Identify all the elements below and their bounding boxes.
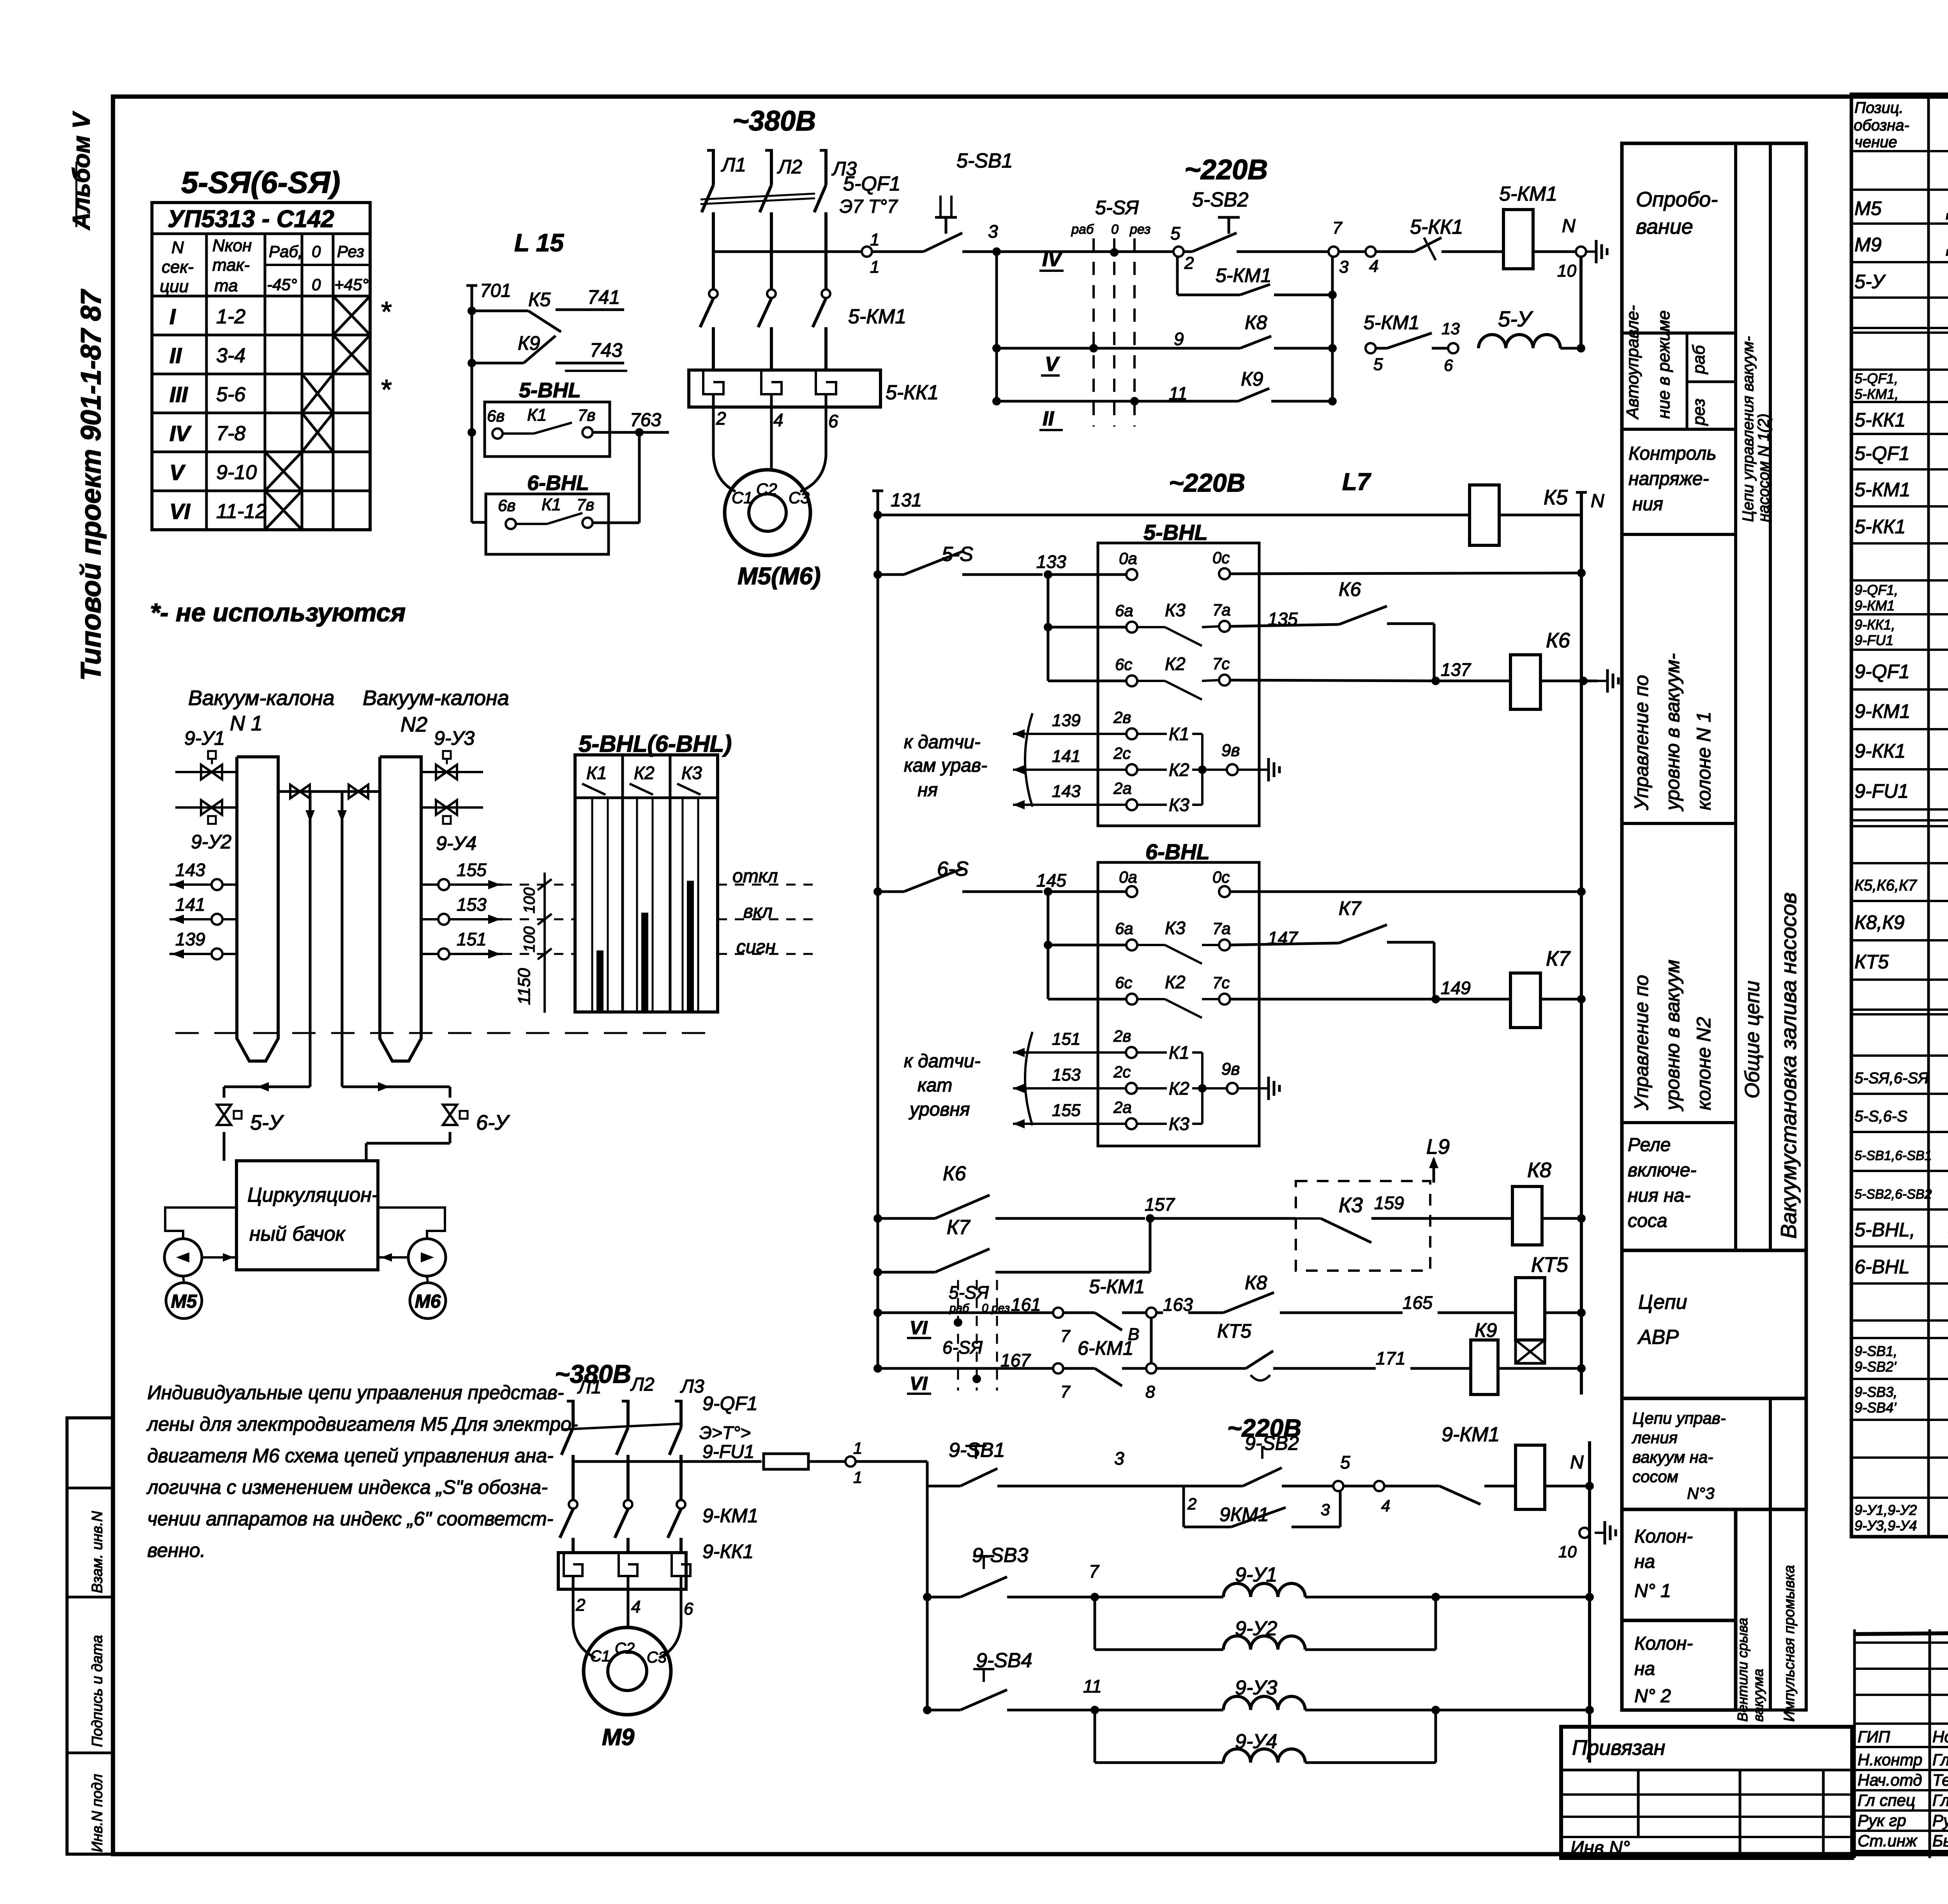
- svg-text:Вакуумустановка залива насосо: Вакуумустановка залива насосов: [1776, 892, 1801, 1239]
- svg-text:вакуум на-: вакуум на-: [1632, 1448, 1713, 1466]
- relay K5 rung (131): [872, 485, 1604, 545]
- svg-text:155: 155: [1052, 1101, 1081, 1120]
- svg-text:на: на: [1634, 1551, 1655, 1572]
- svg-text:К9: К9: [1241, 368, 1263, 390]
- svg-text:М9: М9: [1854, 234, 1881, 256]
- svg-text:5-S,6-S: 5-S,6-S: [1854, 1108, 1907, 1125]
- svg-text:Ст.инж: Ст.инж: [1858, 1832, 1918, 1850]
- svg-text:0с: 0с: [1212, 868, 1230, 886]
- margin label: Альбом V: [68, 111, 95, 231]
- zone: Управление по уровню N1: [1630, 653, 1715, 811]
- svg-text:II: II: [169, 343, 182, 368]
- svg-text:9-FU1: 9-FU1: [1854, 632, 1893, 648]
- svg-text:К8,К9: К8,К9: [1854, 911, 1904, 933]
- svg-text:ня: ня: [918, 780, 938, 800]
- svg-text:АВР: АВР: [1637, 1326, 1679, 1349]
- svg-text:9-SB2': 9-SB2': [1854, 1359, 1897, 1375]
- svg-text:колоне N2: колоне N2: [1693, 1017, 1715, 1110]
- svg-text:9-SB3,: 9-SB3,: [1854, 1384, 1897, 1400]
- svg-text:М9: М9: [602, 1724, 635, 1750]
- svg-text:5-КМ1,: 5-КМ1,: [1854, 386, 1899, 402]
- svg-text:Колон-: Колон-: [1634, 1526, 1693, 1547]
- svg-text:157: 157: [1145, 1194, 1175, 1215]
- svg-text:7: 7: [1089, 1561, 1099, 1581]
- svg-text:V: V: [169, 460, 186, 485]
- svg-text:к датчи-: к датчи-: [904, 732, 981, 753]
- svg-text:N: N: [1591, 491, 1604, 511]
- table row: Тумблер ТВ1-1: [1854, 1102, 1948, 1126]
- pipe to tank via valve 6-У: [342, 1082, 510, 1161]
- signature rows: [1854, 1629, 1948, 1858]
- svg-text:та: та: [214, 276, 238, 295]
- svg-text:лены для электродвигателя М5 Д: лены для электродвигателя М5 Для электро…: [146, 1413, 578, 1435]
- svg-text:1: 1: [853, 1439, 862, 1457]
- svg-text:Опробо-: Опробо-: [1636, 188, 1718, 211]
- wire: N bus (test section): [1579, 257, 1583, 348]
- svg-text:9-У3,9-У4: 9-У3,9-У4: [1854, 1518, 1917, 1534]
- svg-text:6: 6: [1444, 356, 1453, 374]
- svg-text:Быльченко: Быльченко: [1932, 1832, 1948, 1850]
- svg-text:К2: К2: [634, 763, 655, 783]
- svg-text:М5: М5: [171, 1291, 198, 1312]
- svg-text:Привязан: Привязан: [1572, 1736, 1665, 1759]
- svg-text:раб: раб: [1071, 222, 1094, 237]
- level taps 139/141/143: [169, 860, 237, 959]
- svg-text:Nкон: Nкон: [212, 236, 252, 255]
- svg-text:напряже-: напряже-: [1629, 469, 1709, 489]
- svg-text:Управление по: Управление по: [1630, 675, 1652, 811]
- table row: Реле ПЭ37-22УЗ, ~220В, 2з, 2р: [1854, 871, 1948, 895]
- time relay KT5 coil: [1516, 1253, 1586, 1363]
- svg-text:Цепи управ-: Цепи управ-: [1632, 1409, 1726, 1427]
- label ~220V (top): [1184, 154, 1268, 185]
- svg-text:КТ5: КТ5: [1217, 1320, 1251, 1342]
- svg-text:7в: 7в: [578, 406, 595, 424]
- svg-text:2в: 2в: [1113, 1027, 1131, 1045]
- svg-text:ния на-: ния на-: [1628, 1185, 1690, 1206]
- svg-text:ния: ния: [1632, 494, 1663, 515]
- svg-text:1: 1: [853, 1468, 862, 1486]
- svg-text:9-У3: 9-У3: [434, 727, 475, 749]
- svg-text:VI: VI: [910, 1318, 928, 1338]
- svg-text:131: 131: [891, 490, 922, 511]
- level contact 6с-К2-7с: [1048, 654, 1440, 700]
- circulation tank: [236, 1161, 378, 1270]
- svg-text:С2: С2: [615, 1640, 635, 1657]
- svg-text:сек-: сек-: [162, 257, 194, 277]
- zone: Управление по уровню N2: [1630, 960, 1715, 1111]
- thermal contact 5-KK1 (NC): [1410, 216, 1503, 260]
- svg-text:насосом N 1(2): насосом N 1(2): [1755, 414, 1772, 522]
- svg-text:КТ5: КТ5: [1531, 1253, 1569, 1276]
- svg-text:Цепи: Цепи: [1638, 1291, 1687, 1313]
- svg-text:уровня: уровня: [909, 1099, 970, 1120]
- svg-text:9-QF1,: 9-QF1,: [1854, 582, 1898, 598]
- solenoid 9-У1: [1223, 1564, 1594, 1601]
- svg-text:9-КМ1: 9-КМ1: [1442, 1423, 1500, 1446]
- table row: Выключатель АЕ2046М-10РУЗ-6 Эр 16А: [1854, 658, 1948, 683]
- svg-text:К5: К5: [528, 289, 551, 310]
- phase terminals Л1 Л2 Л3: [707, 150, 857, 185]
- svg-text:Автоуправле-: Автоуправле-: [1623, 305, 1642, 420]
- level contact 6а-К3-7а -> K6: [1044, 575, 1434, 681]
- fuse 9-FU1 and control tap: [573, 1439, 927, 1486]
- relay K6 coil 137: [1436, 629, 1618, 709]
- svg-text:N° 1: N° 1: [1634, 1581, 1671, 1601]
- svg-text:ции: ции: [160, 277, 189, 296]
- svg-text:143: 143: [175, 860, 205, 880]
- svg-text:рез: рез: [1129, 222, 1150, 237]
- svg-text:чение: чение: [1854, 134, 1897, 151]
- table row: Пост ПКУ15-21, 141-40УЗ: [1854, 1343, 1948, 1375]
- svg-text:Рук гр: Рук гр: [1858, 1811, 1906, 1830]
- valve 9-У1: [175, 727, 237, 779]
- contactor 5-KM1 main contacts: [700, 289, 906, 370]
- svg-text:155: 155: [457, 860, 487, 880]
- svg-text:откл: откл: [732, 866, 778, 887]
- svg-text:*: *: [380, 374, 392, 405]
- svg-text:9-SB2: 9-SB2: [1245, 1432, 1299, 1454]
- svg-text:К1: К1: [586, 763, 607, 783]
- svg-text:Циркуляцион-: Циркуляцион-: [247, 1184, 378, 1206]
- svg-text:5-ВHL(6-ВHL): 5-ВHL(6-ВHL): [579, 731, 732, 757]
- svg-text:Л2: Л2: [777, 156, 802, 178]
- svg-text:0: 0: [1111, 222, 1119, 237]
- svg-text:N2: N2: [401, 713, 427, 736]
- svg-text:на: на: [1634, 1659, 1655, 1679]
- svg-text:чении аппаратов на индекс „6": чении аппаратов на индекс „6" соответст-: [147, 1508, 553, 1530]
- svg-text:6-ВHL: 6-ВHL: [527, 471, 589, 495]
- svg-text:9-КМ1: 9-КМ1: [1854, 700, 1910, 722]
- svg-text:6с: 6с: [1115, 973, 1132, 992]
- svg-text:6с: 6с: [1115, 655, 1132, 673]
- svg-text:М5(М6): М5(М6): [738, 563, 821, 590]
- svg-text:5-ВHL,: 5-ВHL,: [1854, 1219, 1915, 1241]
- svg-text:9-КМ1: 9-КМ1: [702, 1505, 758, 1527]
- svg-text:К6: К6: [1546, 629, 1570, 652]
- svg-text:ный бачок: ный бачок: [249, 1223, 346, 1245]
- svg-text:5-SB1,6-SB1: 5-SB1,6-SB1: [1854, 1148, 1932, 1163]
- svg-text:141: 141: [175, 894, 205, 915]
- svg-text:9-КМ1: 9-КМ1: [1854, 598, 1895, 614]
- pipe between columns with valves: [278, 785, 380, 1087]
- solenoid 9-У4 branch: [1095, 1710, 1436, 1763]
- svg-text:L7: L7: [1342, 469, 1371, 495]
- svg-text:кам урав-: кам урав-: [904, 755, 987, 776]
- svg-text:5-КМ1: 5-КМ1: [1499, 183, 1557, 205]
- wire: L15 bus 701: [466, 280, 511, 522]
- solenoid 9-У3: [1223, 1677, 1594, 1714]
- svg-text:4: 4: [1369, 257, 1378, 276]
- svg-text:Л2: Л2: [630, 1374, 655, 1395]
- wire: left bus (9-SB): [926, 1486, 929, 1710]
- svg-text:7с: 7с: [1212, 973, 1230, 992]
- pushbutton 9-SB4 rung: [923, 1649, 1223, 1714]
- svg-text:5-КК1: 5-КК1: [1854, 409, 1906, 431]
- svg-text:Глузберг: Глузберг: [1932, 1791, 1948, 1809]
- svg-text:137: 137: [1441, 659, 1471, 680]
- svg-text:2: 2: [716, 408, 726, 428]
- svg-text:Вентили срыва: Вентили срыва: [1734, 1618, 1750, 1722]
- svg-text:1150: 1150: [515, 968, 534, 1005]
- svg-text:Импульсная промывка: Импульсная промывка: [1781, 1565, 1798, 1722]
- table row: Клапан угловой КВМ-25, ~220В: [1854, 1502, 1948, 1534]
- svg-text:5-КК1: 5-КК1: [1410, 216, 1463, 238]
- contact K7 rung: [873, 1216, 1150, 1276]
- svg-text:Рез: Рез: [337, 242, 364, 261]
- svg-text:Э7 Т°7: Э7 Т°7: [840, 196, 898, 217]
- svg-text:*: *: [380, 296, 392, 328]
- svg-text:5-У: 5-У: [250, 1111, 284, 1134]
- zone: Реле включения насоса: [1628, 1135, 1696, 1231]
- svg-text:6а: 6а: [1115, 919, 1133, 938]
- svg-text:Инв N°: Инв N°: [1570, 1838, 1630, 1858]
- svg-text:Реле: Реле: [1628, 1135, 1671, 1155]
- table row: Блок управления: [1854, 582, 1948, 614]
- zone: Общие цепи: [1741, 981, 1764, 1098]
- svg-text:VI: VI: [910, 1373, 928, 1394]
- svg-text:L 15: L 15: [514, 229, 564, 257]
- svg-text:К3: К3: [1169, 795, 1189, 815]
- svg-text:6-У: 6-У: [476, 1111, 510, 1134]
- svg-text:4: 4: [1381, 1497, 1390, 1515]
- svg-text:7: 7: [1060, 1382, 1071, 1402]
- svg-text:К8: К8: [1245, 1272, 1267, 1294]
- table row: кальный, вариант 1,: [1854, 1253, 1948, 1278]
- svg-text:9-У4: 9-У4: [436, 832, 476, 854]
- svg-text:М5: М5: [1854, 197, 1882, 219]
- table row: Двигатель 4А90 L4: [1854, 195, 1948, 220]
- sensor leads 139/141/143 (5-BHL): [904, 708, 1279, 815]
- svg-text:139: 139: [175, 929, 205, 949]
- svg-text:701: 701: [480, 280, 511, 301]
- svg-text:Л1: Л1: [577, 1377, 602, 1398]
- table row: Переключатель УП5313 С142УЗ: [1854, 1063, 1948, 1088]
- svg-text:10: 10: [1558, 1543, 1577, 1561]
- svg-text:9-QF1: 9-QF1: [702, 1393, 758, 1414]
- svg-text:5-ВHL: 5-ВHL: [519, 379, 581, 402]
- svg-text:так-: так-: [212, 256, 250, 275]
- zone: Цепи управления вакуум-насосом N1(2): [1740, 336, 1772, 522]
- svg-text:N: N: [1570, 1452, 1584, 1473]
- svg-text:2а: 2а: [1113, 1098, 1132, 1116]
- note text block: [146, 1382, 578, 1561]
- svg-text:К1: К1: [527, 405, 547, 425]
- svg-text:1: 1: [870, 230, 879, 249]
- svg-text:10: 10: [1557, 261, 1576, 280]
- svg-text:5-SB2: 5-SB2: [1192, 189, 1249, 211]
- components table grid: [1851, 94, 1948, 1537]
- svg-text:1: 1: [870, 257, 879, 277]
- svg-text:Цепи управления вакуум-: Цепи управления вакуум-: [1740, 336, 1757, 522]
- svg-text:167: 167: [1000, 1350, 1031, 1370]
- selector 5-SЯ (dashed): [1071, 197, 1150, 427]
- svg-text:143: 143: [1052, 782, 1081, 801]
- zone: Цепи упр. вакуум насосом N3: [1622, 1398, 1806, 1509]
- svg-text:К3: К3: [1339, 1194, 1363, 1217]
- svg-text:III: III: [169, 382, 188, 407]
- wire: right N bus (M9): [1558, 1441, 1616, 1763]
- svg-text:5-ВHL: 5-ВHL: [1143, 520, 1208, 545]
- margin cells stack: [67, 1418, 113, 1854]
- svg-text:5-SЯ: 5-SЯ: [949, 1282, 989, 1303]
- svg-text:133: 133: [1036, 552, 1066, 572]
- pump M6: [378, 1208, 446, 1319]
- section numerals IV V II: [1039, 248, 1064, 430]
- svg-text:6в: 6в: [498, 496, 515, 515]
- svg-text:2с: 2с: [1113, 1063, 1131, 1081]
- svg-text:7а: 7а: [1212, 919, 1231, 938]
- svg-text:100: 100: [521, 887, 538, 913]
- coil 5-KM1 and neutral N 10: [1499, 183, 1607, 280]
- svg-text:9-У1,9-У2: 9-У1,9-У2: [1854, 1502, 1917, 1518]
- thermal overload 5-KK1: [689, 370, 939, 431]
- svg-text:5-КК1: 5-КК1: [886, 381, 939, 404]
- zone: Колонна N1: [1622, 1509, 1736, 1620]
- svg-text:Глузберг: Глузберг: [1932, 1751, 1948, 1769]
- svg-text:3-4: 3-4: [216, 344, 245, 367]
- svg-text:7: 7: [1060, 1327, 1071, 1346]
- svg-text:УП5313 - С142: УП5313 - С142: [168, 206, 334, 233]
- svg-text:741: 741: [588, 286, 620, 308]
- svg-text:743: 743: [590, 339, 623, 361]
- svg-text:9-10: 9-10: [216, 461, 257, 484]
- pushbutton 9-SB3 rung: [923, 1544, 1223, 1601]
- svg-text:*- не используются: *- не используются: [150, 598, 406, 627]
- svg-text:К6: К6: [943, 1162, 966, 1185]
- svg-text:к датчи-: к датчи-: [904, 1051, 981, 1072]
- pump M5: [164, 1208, 236, 1319]
- zone: Колонна N2: [1622, 1620, 1736, 1710]
- svg-text:6: 6: [684, 1599, 693, 1618]
- svg-text:4: 4: [773, 410, 783, 430]
- components table header: [1854, 99, 1948, 151]
- selector 5-SЯ/6-SЯ (AVR, dashed): [942, 1280, 1010, 1391]
- svg-text:L9: L9: [1426, 1135, 1450, 1158]
- valve 9-У2: [175, 800, 237, 853]
- block 6-BHL aux contact 6в-К1-7в: [472, 432, 639, 554]
- svg-text:6: 6: [828, 411, 838, 431]
- svg-text:5-КК1: 5-КК1: [1854, 516, 1906, 538]
- svg-text:Л3: Л3: [680, 1376, 704, 1397]
- svg-text:165: 165: [1403, 1292, 1433, 1313]
- pushbutton 9-SB1: [927, 1439, 1124, 1486]
- svg-text:ние в режиме: ние в режиме: [1654, 310, 1673, 419]
- svg-text:2: 2: [1187, 1495, 1196, 1513]
- wire: control tap 1: [713, 230, 908, 277]
- svg-text:рез: рез: [1689, 398, 1708, 426]
- svg-text:9в: 9в: [1221, 1060, 1240, 1079]
- table row: Блок управления: [1854, 370, 1948, 402]
- svg-text:7с: 7с: [1212, 654, 1230, 673]
- svg-text:5-SB1: 5-SB1: [956, 150, 1013, 172]
- zone: Контроль напряжения: [1629, 443, 1717, 515]
- svg-text:Нач.отд: Нач.отд: [1858, 1771, 1922, 1789]
- svg-text:Рудницкий: Рудницкий: [1932, 1811, 1948, 1830]
- svg-text:5-КМ1: 5-КМ1: [848, 305, 906, 328]
- svg-text:5-КМ1: 5-КМ1: [1854, 479, 1910, 501]
- svg-text:9-КК1: 9-КК1: [702, 1541, 753, 1562]
- svg-text:включе-: включе-: [1628, 1160, 1696, 1181]
- svg-text:9-SB1,: 9-SB1,: [1854, 1343, 1897, 1359]
- svg-text:4: 4: [631, 1597, 641, 1617]
- svg-text:159: 159: [1374, 1193, 1404, 1213]
- vessel: vacuum column N2: [380, 757, 421, 1061]
- svg-text:7в: 7в: [577, 495, 594, 514]
- svg-text:Гл спец: Гл спец: [1858, 1791, 1915, 1809]
- label ~380V (M5): [732, 106, 816, 137]
- svg-text:2а: 2а: [1113, 779, 1132, 797]
- box Привязан / Инв №: [1561, 1727, 1852, 1858]
- svg-text:9-FU1: 9-FU1: [702, 1442, 754, 1462]
- svg-text:0: 0: [312, 275, 321, 294]
- svg-text:7а: 7а: [1212, 601, 1231, 619]
- AVR rung 161-163-165 (5-КМ1, К8): [873, 1272, 1516, 1346]
- svg-text:сосом: сосом: [1632, 1467, 1678, 1486]
- contact K9 to 743: [472, 332, 627, 371]
- remote contact K3 (dashed) and L9: [1296, 1135, 1512, 1271]
- svg-text:3: 3: [1114, 1448, 1124, 1469]
- svg-text:3: 3: [988, 221, 998, 242]
- note: * not used: [150, 598, 406, 627]
- svg-text:Индивидуальные цепи управления: Индивидуальные цепи управления представ-: [147, 1382, 564, 1403]
- svg-text:Вакуум-калона: Вакуум-калона: [188, 686, 335, 710]
- svg-text:Типовой проект 901-1-87 87: Типовой проект 901-1-87 87: [76, 289, 107, 681]
- svg-text:9-FU1: 9-FU1: [1854, 780, 1909, 802]
- svg-text:Терехов: Терехов: [1932, 1771, 1948, 1789]
- contact K8 rung 9: [992, 312, 1332, 353]
- wire: junction column: [1328, 257, 1337, 401]
- svg-text:9в: 9в: [1221, 741, 1240, 760]
- svg-text:11: 11: [1083, 1676, 1102, 1696]
- relay K7 coil 149: [1436, 947, 1586, 1028]
- svg-text:9: 9: [1174, 329, 1184, 349]
- sensor block 5-BHL (upper): [1098, 520, 1586, 826]
- svg-text:2с: 2с: [1113, 744, 1131, 762]
- svg-text:~380В: ~380В: [732, 106, 816, 137]
- svg-text:VI: VI: [169, 499, 191, 524]
- svg-text:С3: С3: [647, 1649, 667, 1666]
- svg-text:Подпись и дата: Подпись и дата: [89, 1635, 106, 1747]
- svg-text:К2: К2: [1169, 760, 1189, 780]
- svg-text:9-У1: 9-У1: [184, 727, 225, 749]
- svg-text:6-ВHL: 6-ВHL: [1145, 839, 1210, 864]
- labels vacuum columns: [188, 686, 509, 736]
- svg-text:~220В: ~220В: [1184, 154, 1268, 185]
- svg-text:5-КМ1: 5-КМ1: [1364, 312, 1419, 333]
- svg-text:3: 3: [1339, 257, 1349, 277]
- svg-text:6-ВHL: 6-ВHL: [1854, 1256, 1910, 1278]
- table row: Пускатель ПМЛ 2100 ~220В: [1854, 698, 1948, 723]
- table row: Тепловое реле РТЛ-1016 Знз 12,5А: [1854, 738, 1948, 762]
- svg-text:соса: соса: [1628, 1211, 1667, 1231]
- thermal contact rung (M9): [1343, 1481, 1516, 1515]
- svg-text:5-SЯ: 5-SЯ: [1095, 197, 1139, 219]
- svg-text:763: 763: [630, 410, 661, 430]
- svg-text:153: 153: [1052, 1065, 1081, 1084]
- solenoid 9-У2 branch: [1095, 1597, 1436, 1650]
- pipe to tank via valve 5-У: [217, 1082, 310, 1161]
- svg-text:5: 5: [1170, 223, 1180, 243]
- seal-in 9КМ1: [1184, 1486, 1340, 1527]
- svg-text:С3: С3: [789, 488, 810, 507]
- svg-text:149: 149: [1441, 978, 1471, 998]
- svg-text:145: 145: [1036, 870, 1066, 890]
- pushbutton 5-SB2 rung: [997, 189, 1414, 277]
- svg-text:Раб,: Раб,: [269, 242, 303, 261]
- svg-text:колоне N 1: колоне N 1: [1693, 712, 1715, 810]
- svg-text:9-SB4': 9-SB4': [1854, 1400, 1897, 1416]
